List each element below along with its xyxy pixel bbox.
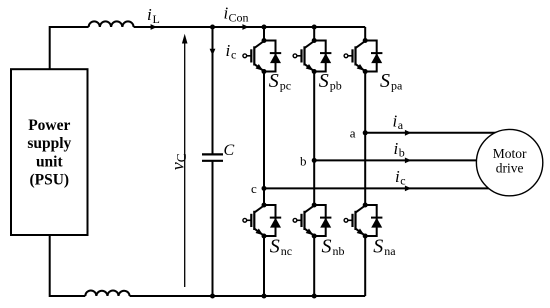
svg-text:b: b — [399, 146, 405, 160]
svg-text:i: i — [394, 139, 399, 158]
svg-text:a: a — [350, 126, 356, 141]
svg-text:unit: unit — [36, 153, 64, 170]
svg-text:pb: pb — [330, 79, 342, 93]
svg-text:Con: Con — [229, 11, 249, 25]
svg-text:supply: supply — [27, 135, 71, 152]
svg-text:nc: nc — [281, 244, 292, 258]
svg-text:S: S — [269, 70, 279, 92]
svg-text:b: b — [300, 153, 307, 168]
svg-text:c: c — [231, 48, 236, 62]
svg-text:S: S — [270, 236, 280, 258]
svg-text:i: i — [226, 41, 231, 60]
svg-text:Power: Power — [28, 117, 70, 134]
svg-text:a: a — [398, 118, 404, 132]
svg-text:i: i — [147, 5, 152, 24]
svg-text:S: S — [322, 236, 332, 258]
svg-text:c: c — [251, 181, 257, 196]
svg-text:Motor: Motor — [493, 146, 527, 161]
svg-text:i: i — [395, 167, 400, 186]
svg-text:(PSU): (PSU) — [29, 172, 69, 189]
svg-text:i: i — [393, 112, 398, 131]
svg-text:pc: pc — [280, 79, 291, 93]
svg-text:drive: drive — [496, 161, 524, 176]
svg-text:C: C — [224, 142, 235, 159]
svg-text:pa: pa — [391, 79, 403, 93]
svg-text:S: S — [380, 70, 390, 92]
svg-text:S: S — [373, 236, 383, 258]
svg-text:na: na — [384, 244, 396, 258]
svg-text:S: S — [319, 70, 329, 92]
svg-text:L: L — [153, 12, 160, 26]
svg-text:c: c — [400, 174, 405, 188]
svg-text:nb: nb — [333, 244, 345, 258]
